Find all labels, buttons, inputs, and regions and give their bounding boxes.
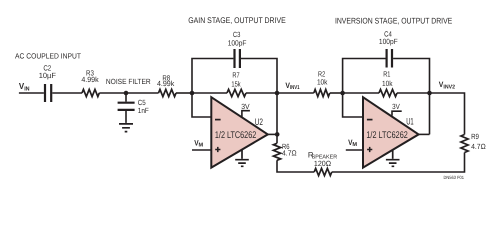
- supply 3V (U1): [391, 102, 402, 116]
- wire R1 to node VINV2: [397, 92, 430, 94]
- wire node A to R8: [126, 92, 159, 94]
- svg-text:INV2: INV2: [443, 85, 455, 91]
- capacitor C3: [228, 30, 247, 68]
- wire node B to R7: [192, 92, 227, 94]
- svg-text:4.99k: 4.99k: [157, 79, 175, 88]
- svg-text:INVERSION STAGE, OUTPUT DRIVE: INVERSION STAGE, OUTPUT DRIVE: [335, 16, 453, 25]
- node U2 output junction: [275, 132, 280, 137]
- svg-text:1/2 LTC6262: 1/2 LTC6262: [215, 130, 256, 141]
- wire C2 to R3: [52, 92, 82, 94]
- svg-text:M: M: [352, 142, 357, 148]
- node VM stub into U2 plus input: [192, 149, 212, 151]
- ground below U2: [235, 150, 249, 167]
- wire R3 to node A: [99, 92, 126, 94]
- svg-text:DN563 F01: DN563 F01: [444, 175, 465, 180]
- op-amp U1: [363, 97, 419, 167]
- ground below C5: [119, 124, 133, 132]
- wire node B down to U2 minus input: [192, 93, 212, 117]
- wire R2 to node C: [330, 92, 343, 94]
- node VM label (U1): [348, 138, 357, 148]
- node B junction (U2 inverting input node): [190, 91, 195, 96]
- resistor R9: [461, 132, 486, 152]
- node C junction (U1 inverting input node): [340, 91, 345, 96]
- wire C5 to ground: [125, 111, 127, 123]
- capacitor C5: [118, 98, 150, 115]
- node VINV1 label: [285, 81, 299, 91]
- svg-text:100pF: 100pF: [379, 37, 398, 46]
- resistor R1: [379, 70, 397, 97]
- node VINV1 junction: [275, 91, 280, 96]
- node VM label (U2): [194, 138, 203, 148]
- ground below U1: [386, 150, 400, 166]
- node VINV2 junction: [427, 91, 432, 96]
- svg-text:100pF: 100pF: [228, 38, 247, 47]
- svg-text:GAIN STAGE, OUTPUT DRIVE: GAIN STAGE, OUTPUT DRIVE: [188, 16, 286, 25]
- wire node C to R1: [343, 92, 379, 94]
- wire R7 to node VINV1: [246, 92, 277, 94]
- resistor R6: [273, 142, 297, 160]
- wire U2 output down to R6: [276, 134, 278, 143]
- node VM stub into U1 plus input: [346, 149, 364, 151]
- resistor R3: [81, 69, 99, 97]
- svg-text:10µF: 10µF: [39, 71, 57, 80]
- wire node A down to C5: [125, 93, 127, 102]
- wire VINV2 to R9: [430, 93, 465, 135]
- svg-text:R9: R9: [471, 132, 479, 141]
- svg-text:R7: R7: [232, 71, 239, 80]
- resistor R7: [227, 71, 246, 97]
- svg-text:10k: 10k: [382, 79, 393, 88]
- wire C4 to output vertical: [393, 59, 429, 135]
- svg-text:3V: 3V: [241, 102, 249, 111]
- wire VINV1 to R2: [277, 92, 314, 94]
- svg-text:10k: 10k: [317, 78, 328, 87]
- wire node B up and across to C3: [192, 59, 233, 94]
- svg-text:U2: U2: [255, 116, 263, 127]
- wire C3 to output vertical: [241, 59, 277, 135]
- svg-text:R1: R1: [383, 70, 390, 79]
- resistor R2: [314, 70, 330, 97]
- svg-text:AC COUPLED INPUT: AC COUPLED INPUT: [15, 51, 81, 60]
- resistor RSPEAKER: [308, 150, 337, 175]
- op-amp U2: [211, 97, 267, 167]
- wire node C down to U1 minus input: [343, 93, 364, 117]
- svg-text:1nF: 1nF: [138, 106, 149, 115]
- svg-text:U1: U1: [406, 116, 414, 127]
- node A junction: [124, 91, 129, 96]
- wire R8 to node B: [176, 92, 192, 94]
- svg-text:IN: IN: [24, 87, 29, 93]
- wire VIN to C2: [19, 92, 44, 94]
- node VINV2 label: [439, 80, 455, 90]
- wire node C up and across to C4: [343, 59, 386, 94]
- resistor R8: [157, 73, 176, 96]
- capacitor C2: [39, 64, 57, 102]
- svg-text:120Ω: 120Ω: [314, 159, 332, 168]
- wire R6 to bottom rail: [277, 160, 314, 172]
- supply 3V (U2): [241, 102, 250, 117]
- svg-text:1/2 LTC6262: 1/2 LTC6262: [366, 130, 407, 141]
- wire R9 to bottom rail: [332, 153, 465, 173]
- svg-text:4.7Ω: 4.7Ω: [471, 142, 486, 151]
- svg-text:3V: 3V: [392, 102, 400, 111]
- svg-text:INV1: INV1: [290, 85, 300, 91]
- svg-text:NOISE FILTER: NOISE FILTER: [106, 77, 151, 86]
- wire U1 output stub up to VINV2: [417, 133, 429, 135]
- svg-text:4.7Ω: 4.7Ω: [282, 148, 297, 157]
- svg-text:M: M: [199, 142, 204, 148]
- wire U2 output stub: [267, 133, 278, 135]
- svg-text:4.99k: 4.99k: [81, 75, 99, 84]
- svg-text:15k: 15k: [231, 80, 240, 89]
- capacitor C4: [379, 30, 398, 68]
- node VIN: [19, 81, 30, 93]
